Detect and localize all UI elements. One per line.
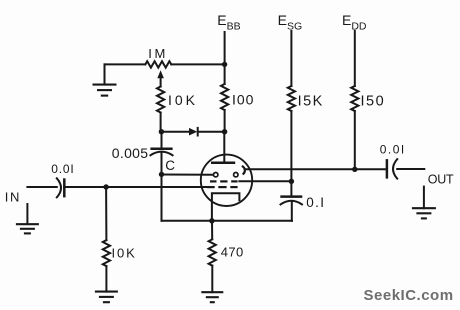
- svg-text:470: 470: [221, 245, 244, 260]
- svg-text:I00: I00: [232, 92, 254, 108]
- svg-text:SeekIC.com: SeekIC.com: [364, 287, 454, 304]
- svg-text:I50: I50: [361, 93, 386, 109]
- svg-text:0.005: 0.005: [112, 145, 149, 161]
- svg-text:I0K: I0K: [112, 246, 137, 261]
- svg-text:0.0I: 0.0I: [380, 143, 406, 157]
- svg-text:I0K: I0K: [168, 92, 198, 108]
- svg-text:IM: IM: [148, 46, 168, 61]
- svg-text:0.I: 0.I: [306, 195, 325, 210]
- svg-text:I5K: I5K: [298, 93, 324, 109]
- svg-text:0.0I: 0.0I: [51, 162, 74, 176]
- svg-text:OUT: OUT: [428, 173, 454, 187]
- svg-text:IN: IN: [5, 190, 21, 205]
- svg-text:C: C: [165, 158, 175, 173]
